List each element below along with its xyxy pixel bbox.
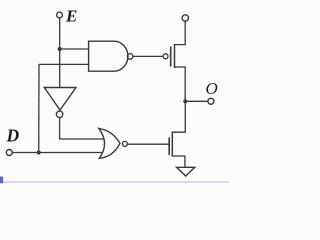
wire NOR to NMOS gate — [127, 143, 169, 145]
transistor Q1 PMOS source arm — [175, 22, 186, 45]
wire D branch vertical — [38, 64, 40, 152]
node D junction — [37, 150, 41, 154]
wire NAND input B horizontal — [39, 63, 89, 65]
wire D horizontal — [12, 152, 102, 154]
node output junction — [183, 99, 187, 103]
wire output — [185, 100, 208, 102]
transistor Q1 PMOS gate bubble — [163, 54, 168, 59]
terminal VDD — [182, 15, 188, 21]
nand output bubble — [127, 54, 133, 60]
transistor Q2 NMOS channel — [171, 132, 173, 157]
blue rule bottom — [0, 181, 229, 183]
wire NAND to PMOS gate — [133, 55, 163, 57]
terminal D — [6, 150, 12, 156]
terminal O — [208, 98, 214, 104]
svg-text:O: O — [206, 79, 218, 98]
nand gate U1 — [89, 41, 128, 71]
transistor Q1 PMOS gate plate — [170, 47, 172, 67]
transistor Q1 PMOS channel — [174, 44, 176, 68]
nor gate U3 — [99, 128, 120, 158]
inverter U2 — [44, 88, 76, 111]
nor output bubble — [122, 141, 127, 146]
ground — [177, 167, 195, 176]
transistor Q2 NMOS source arm — [172, 156, 185, 167]
svg-text:E: E — [65, 7, 77, 26]
inverter output bubble — [56, 111, 62, 117]
wire E vertical — [59, 18, 61, 87]
transistor Q1 PMOS drain arm — [175, 67, 186, 101]
wire NAND input A — [60, 48, 89, 50]
node E junction — [58, 47, 62, 51]
terminal E — [57, 12, 63, 18]
wire inverter to NOR input A — [60, 117, 104, 139]
transistor Q2 NMOS gate plate — [168, 138, 170, 156]
blue tick bottom-left — [0, 177, 3, 184]
wire output to NMOS drain — [172, 101, 185, 132]
svg-text:D: D — [6, 126, 20, 146]
